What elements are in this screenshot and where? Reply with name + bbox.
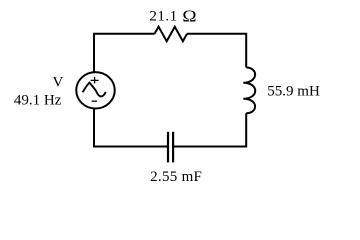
wire bottom-left: from capacitor across and up to source bottom <box>94 109 167 147</box>
plus polarity mark <box>91 77 99 84</box>
AC voltage source V1 circle <box>76 72 115 108</box>
inductor L coil (3 bumps) <box>243 67 255 113</box>
AC source sine wave <box>83 83 106 97</box>
minus polarity mark <box>92 100 97 102</box>
wire top-left: from source top up and across to resistor <box>94 34 155 72</box>
svg-text:55.9 mH: 55.9 mH <box>267 84 320 100</box>
wire right-bottom: from inductor down and across to capacitor <box>174 113 246 146</box>
svg-text:2.55 mF: 2.55 mF <box>150 169 202 185</box>
capacitor C right plate <box>172 132 174 163</box>
svg-text:49.1 Hz: 49.1 Hz <box>14 92 62 108</box>
svg-text:21.1: 21.1 <box>149 9 177 25</box>
wire top-right: from resistor across and down to inductor <box>187 34 246 68</box>
svg-text:V: V <box>53 74 64 90</box>
resistor R zigzag <box>155 27 188 41</box>
capacitor C left plate <box>167 132 169 163</box>
svg-text:Ω: Ω <box>182 6 196 25</box>
